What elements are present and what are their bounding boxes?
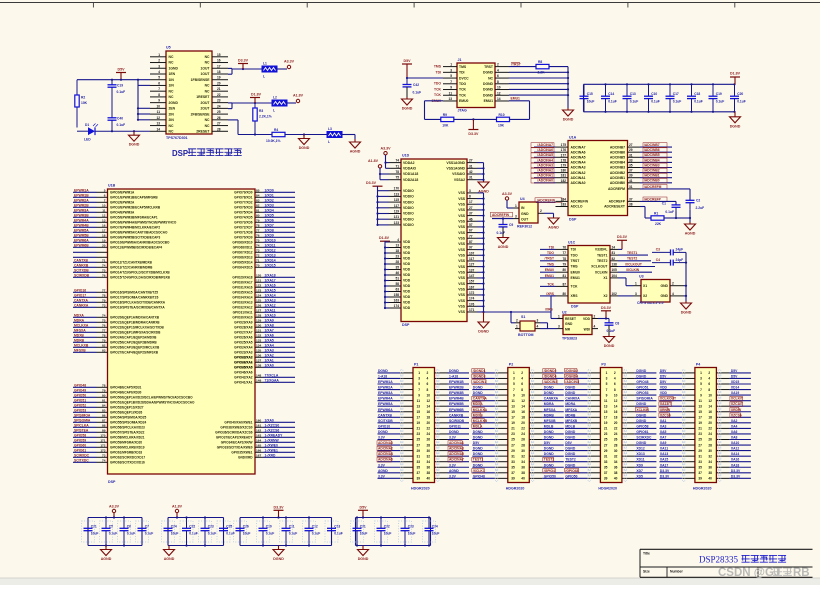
svg-text:IN: IN: [521, 206, 525, 210]
svg-text:1/XA2: 1/XA2: [265, 353, 274, 357]
svg-text:161: 161: [256, 423, 261, 427]
node P4 row 6: [659, 396, 751, 404]
svg-text:C22: C22: [189, 524, 195, 528]
svg-text:1/XD10: 1/XD10: [265, 238, 276, 242]
power D3.3V pullup: [468, 119, 479, 135]
svg-text:/XCLKIN: /XCLKIN: [626, 268, 640, 272]
svg-text:38: 38: [708, 471, 712, 475]
svg-text:/ADCINB5: /ADCINB5: [644, 153, 660, 157]
node ADCREFIN wire to U1A: [535, 198, 562, 203]
svg-text:EPWM2A: EPWM2A: [378, 386, 393, 390]
svg-text:39: 39: [629, 174, 633, 178]
svg-text:ADCINA4: ADCINA4: [378, 452, 393, 456]
resistor R1: [651, 211, 664, 226]
svg-text:ADCRESEXT: ADCRESEXT: [604, 205, 626, 209]
node P4 row 4: [659, 386, 751, 393]
node 1/XA7: [234, 328, 295, 334]
svg-text:29: 29: [698, 449, 702, 453]
svg-text:1/XD9: 1/XD9: [265, 233, 274, 237]
node 1/XA3: [234, 348, 295, 354]
node P2 row 3: [472, 380, 564, 387]
svg-text:1: 1: [558, 314, 560, 318]
LED D1: [84, 123, 98, 142]
svg-text:/ADCINB0: /ADCINB0: [644, 179, 660, 183]
svg-text:16: 16: [614, 410, 618, 414]
svg-text:DGND: DGND: [565, 463, 575, 467]
svg-text:XA12: XA12: [731, 447, 740, 451]
svg-text:VSS1AGND: VSS1AGND: [446, 161, 465, 165]
svg-text:0.1uF: 0.1uF: [630, 100, 639, 104]
svg-text:XD15: XD15: [731, 380, 740, 384]
ground DGND: [273, 546, 284, 562]
svg-text:GPIO22/EQEP1S/MCLKXA/SCITXDB: GPIO22/EQEP1S/MCLKXA/SCITXDB: [110, 326, 164, 330]
svg-text:1/XA7: 1/XA7: [265, 328, 274, 332]
wire A3.3V cap bank rails: [88, 518, 142, 546]
svg-text:120: 120: [256, 273, 261, 277]
svg-text:/ADCINA5: /ADCINA5: [537, 153, 553, 157]
svg-text:3: 3: [515, 214, 517, 218]
svg-text:/ADCINA4: /ADCINA4: [537, 158, 553, 162]
svg-text:DSP: DSP: [402, 323, 410, 327]
svg-text:L1: L1: [263, 61, 267, 65]
svg-text:75: 75: [256, 238, 260, 242]
svg-text:XD7: XD7: [636, 469, 643, 473]
svg-text:30: 30: [614, 449, 618, 453]
svg-text:10: 10: [497, 86, 501, 90]
node P1 row 16: [377, 452, 469, 460]
svg-text:DGND: DGND: [544, 463, 554, 467]
node EPWM3B pin 12: [73, 213, 158, 219]
node P3 row 8: [565, 407, 657, 414]
svg-text:DGND: DGND: [473, 391, 483, 395]
node 1-/XREADY: [216, 433, 295, 439]
svg-text:82: 82: [102, 343, 106, 347]
svg-text:ADCINA4: ADCINA4: [571, 161, 586, 165]
svg-text:TDO: TDO: [459, 82, 467, 86]
svg-text:23: 23: [511, 432, 515, 436]
ground DGND: [402, 97, 413, 111]
svg-text:37: 37: [511, 471, 515, 475]
svg-text:XA10: XA10: [731, 441, 740, 445]
power D3.3V VDDIO bus: [366, 181, 383, 186]
node P1 row 10: [378, 419, 470, 426]
svg-text:MDRA: MDRA: [544, 402, 555, 406]
svg-text:GPIO10/EPWM6A/CANRXB/ADCSOCBO: GPIO10/EPWM6A/CANRXB/ADCSOCBO: [110, 241, 170, 245]
node EPWM5B pin 18: [73, 233, 161, 239]
node ADCINB0: [640, 178, 672, 183]
node ADCINB5: [640, 153, 672, 158]
svg-text:13: 13: [102, 218, 106, 222]
svg-text:1/XA10: 1/XA10: [265, 313, 276, 317]
wire R10 to EMU1: [510, 118, 530, 120]
capacitor C42: [403, 83, 422, 95]
svg-text:29: 29: [629, 148, 633, 152]
svg-text:33: 33: [416, 460, 420, 464]
ground DGND: [730, 112, 741, 129]
svg-text:1-/XWE0: 1-/XWE0: [265, 443, 279, 447]
svg-text:EPWM1B: EPWM1B: [449, 380, 464, 384]
svg-text:TDI: TDI: [571, 248, 577, 252]
svg-text:ADCINA0: ADCINA0: [571, 181, 586, 185]
svg-text:1: 1: [516, 324, 518, 328]
node 1-/XWE1: [231, 448, 295, 454]
svg-text:1GND: 1GND: [169, 66, 179, 70]
svg-text:2/XA18: 2/XA18: [265, 273, 276, 277]
node ADCREFP: [640, 197, 676, 205]
svg-text:DGND: DGND: [358, 557, 369, 561]
svg-text:85: 85: [102, 408, 106, 412]
svg-text:GPIO19/SPISTEA/SCIRXDB/CANTXA: GPIO19/SPISTEA/SCIRXDB/CANTXA: [110, 306, 165, 310]
svg-text:2: 2: [158, 59, 160, 63]
svg-text:VSSA2: VSSA2: [454, 178, 465, 182]
svg-text:1EN: 1EN: [169, 72, 176, 76]
svg-text:ADCINA7: ADCINA7: [449, 458, 464, 462]
wire 2OUT to L2: [228, 102, 272, 109]
svg-text:C3: C3: [656, 248, 660, 252]
svg-text:TDO: TDO: [571, 253, 579, 257]
svg-text:VDD: VDD: [403, 257, 411, 261]
svg-text:XCLK/T: XCLK/T: [731, 397, 743, 401]
svg-text:78: 78: [102, 333, 106, 337]
svg-text:HDGR2020: HDGR2020: [598, 487, 617, 491]
svg-text:SCITXDC: SCITXDC: [74, 458, 89, 462]
capacitor C18: [687, 83, 703, 113]
svg-text:GPIO6/EPWM4A/EPWMSYNCI/EPWMSYN: GPIO6/EPWM4A/EPWMSYNCI/EPWMSYNCO: [110, 221, 177, 225]
svg-text:/ADCINB4: /ADCINB4: [644, 158, 660, 162]
capacitor C13: [325, 518, 343, 546]
wire R4 to L3: [285, 133, 327, 135]
svg-text:2EN: 2EN: [169, 107, 176, 111]
svg-text:9: 9: [700, 393, 702, 397]
svg-text:GPIO7/EPWM4B/MCLKRA/ECAP2: GPIO7/EPWM4B/MCLKRA/ECAP2: [110, 226, 160, 230]
svg-text:29: 29: [511, 449, 515, 453]
svg-text:GPIO69/XD10: GPIO69/XD10: [232, 241, 252, 245]
node ADCINB7: [640, 143, 672, 148]
svg-text:17: 17: [698, 416, 702, 420]
svg-text:76: 76: [102, 323, 106, 327]
svg-text:ADCINA2: ADCINA2: [378, 447, 393, 451]
svg-text:2: 2: [427, 371, 429, 375]
svg-text:XA3: XA3: [660, 424, 667, 428]
svg-text:/XCLK1: /XCLK1: [473, 469, 485, 473]
svg-text:/ADCINB7: /ADCINB7: [644, 143, 660, 147]
watermark CSDN: [718, 567, 810, 579]
svg-text:81: 81: [102, 398, 106, 402]
svg-text:NC: NC: [169, 89, 174, 93]
svg-text:AGND: AGND: [498, 245, 509, 249]
node P2 row 20: [472, 474, 564, 481]
svg-text:SCIRXDB: SCIRXDB: [449, 419, 465, 423]
power A1.8V bank: [172, 504, 183, 518]
node P4 row 10: [659, 419, 751, 426]
capacitor C24: [162, 518, 179, 546]
svg-text:25: 25: [217, 110, 221, 114]
node P3 row 12: [565, 430, 657, 437]
svg-text:80: 80: [562, 292, 566, 296]
node ADCREFM: [640, 185, 690, 201]
svg-text:3: 3: [513, 377, 515, 381]
svg-text:GPIO16/SPISIMOA/CANTXB/TZ5: GPIO16/SPISIMOA/CANTXB/TZ5: [110, 291, 158, 295]
svg-text:GPIO23/XA3: GPIO23/XA3: [234, 351, 253, 355]
svg-text:C25: C25: [226, 524, 232, 528]
node P2 row 9: [472, 413, 564, 421]
node P3 row 16: [565, 452, 657, 459]
node 77/XCLA: [234, 373, 295, 379]
svg-text:GPIO53/EQEP1I/XD26: GPIO53/EQEP1I/XD26: [110, 411, 143, 415]
wire A1.8V cap bank rails: [168, 518, 224, 546]
svg-text:4: 4: [158, 70, 160, 74]
svg-text:33: 33: [698, 460, 702, 464]
svg-text:125: 125: [256, 298, 261, 302]
svg-text:80: 80: [562, 268, 566, 272]
svg-text:1/XA16: 1/XA16: [265, 283, 276, 287]
svg-text:/ADCREFIN: /ADCREFIN: [537, 199, 556, 203]
wire A3.3V to VDDA pins: [384, 155, 389, 168]
svg-text:GPIO51: GPIO51: [74, 398, 86, 402]
svg-text:EPWM5B: EPWM5B: [74, 233, 89, 237]
svg-text:VSS: VSS: [458, 202, 466, 206]
svg-text:D5V: D5V: [660, 374, 667, 378]
svg-text:MDLA: MDLA: [473, 424, 483, 428]
svg-text:1: 1: [635, 282, 637, 286]
svg-text:7: 7: [418, 388, 420, 392]
svg-text:MDRB: MDRB: [565, 413, 576, 417]
wire crystal gnd bus: [684, 252, 687, 301]
svg-text:1/XA13: 1/XA13: [265, 298, 276, 302]
capacitor C10: [644, 83, 660, 113]
svg-text:78: 78: [562, 257, 566, 261]
svg-text:GPIO48: GPIO48: [74, 383, 86, 387]
svg-text:/DGND3: /DGND3: [473, 374, 486, 378]
svg-text:TEST1: TEST1: [473, 458, 484, 462]
transistor S1 reset button: [515, 315, 540, 337]
svg-text:SPISIMOA: SPISIMOA: [74, 413, 91, 417]
svg-text:GPIO2/EPWM2A: GPIO2/EPWM2A: [110, 201, 135, 205]
node MDXA pin 74: [73, 313, 160, 319]
svg-text:12: 12: [427, 399, 431, 403]
svg-text:DGND: DGND: [483, 71, 494, 75]
svg-text:167: 167: [469, 285, 475, 289]
svg-text:MDLB: MDLB: [565, 424, 575, 428]
svg-text:84: 84: [256, 193, 260, 197]
svg-text:3.3V: 3.3V: [449, 463, 457, 467]
svg-text:40: 40: [614, 477, 618, 481]
svg-text:79: 79: [102, 388, 106, 392]
svg-text:TEST2: TEST2: [544, 458, 555, 462]
svg-text:79: 79: [562, 263, 566, 267]
svg-text:97: 97: [469, 246, 473, 250]
svg-text:GPIO26/XA6: GPIO26/XA6: [234, 336, 253, 340]
svg-text:R9: R9: [443, 113, 447, 117]
op-amp U4 REF3012 voltage reference: [513, 197, 544, 229]
svg-text:24: 24: [427, 432, 431, 436]
svg-text:A3.3V: A3.3V: [502, 192, 513, 196]
node TDO U1C: [540, 251, 556, 255]
resistor R4: [266, 128, 285, 143]
svg-text:GPIO49: GPIO49: [74, 388, 86, 392]
svg-text:6: 6: [158, 81, 160, 85]
svg-text:19: 19: [102, 238, 106, 242]
svg-text:1OUT: 1OUT: [200, 66, 210, 70]
svg-text:EPWM5B: EPWM5B: [449, 402, 464, 406]
svg-text:1/XD8: 1/XD8: [265, 228, 274, 232]
title block: [640, 549, 813, 577]
svg-text:EMU0: EMU0: [571, 270, 581, 274]
svg-text:32: 32: [427, 454, 431, 458]
svg-text:NC: NC: [205, 89, 210, 93]
svg-text:35: 35: [629, 164, 633, 168]
svg-text:/ADCREFM: /ADCREFM: [644, 185, 662, 189]
svg-text:MFSXB: MFSXB: [565, 419, 577, 423]
svg-text:EPWM4B: EPWM4B: [449, 397, 464, 401]
node CANRXA pin 73: [73, 303, 165, 309]
svg-text:TDO: TDO: [547, 251, 554, 255]
node EPWM4A pin 13: [73, 218, 177, 224]
svg-text:2OUT: 2OUT: [200, 107, 210, 111]
capacitor C19: [709, 83, 725, 113]
node ADCINB1: [640, 173, 672, 178]
svg-text:77/XCLA: 77/XCLA: [265, 373, 279, 377]
node P4 row 19: [659, 469, 751, 476]
svg-text:GPIO26/ECAP3/EQEP2I/MCLKXB: GPIO26/ECAP3/EQEP2I/MCLKXB: [110, 346, 160, 350]
svg-text:C42: C42: [413, 83, 419, 87]
capacitor C6: [118, 516, 136, 546]
svg-text:/TRST: /TRST: [544, 257, 554, 261]
node P2 row 10: [472, 419, 564, 427]
svg-text:ADCINA6: ADCINA6: [571, 150, 586, 154]
svg-text:D5V: D5V: [473, 441, 480, 445]
svg-text:U3: U3: [639, 275, 644, 279]
svg-text:121: 121: [256, 278, 261, 282]
node P4 row 18: [659, 463, 751, 470]
svg-text:88: 88: [102, 423, 106, 427]
svg-text:GPIO61: GPIO61: [636, 430, 648, 434]
svg-text:MDXA: MDXA: [473, 402, 483, 406]
svg-text:/DGND2: /DGND2: [544, 369, 557, 373]
node P4 row 13: [659, 436, 751, 443]
node GPIO52 pin 84: [73, 403, 144, 409]
svg-text:1/XD12: 1/XD12: [265, 248, 276, 252]
svg-text:GPIO37/ECAP2/XREADY: GPIO37/ECAP2/XREADY: [216, 436, 254, 440]
svg-text:GPIO34/XA14: GPIO34/XA14: [232, 296, 252, 300]
svg-text:5: 5: [450, 74, 452, 78]
svg-text:0.1uF: 0.1uF: [145, 532, 154, 536]
node 1/XD12: [232, 248, 295, 254]
svg-text:1/XA11: 1/XA11: [265, 308, 276, 312]
svg-text:A3.3V: A3.3V: [109, 504, 120, 508]
connector P3 header 2x20: [587, 362, 635, 490]
svg-text:39: 39: [698, 477, 702, 481]
svg-text:2: 2: [672, 282, 674, 286]
svg-text:17: 17: [102, 228, 106, 232]
svg-text:22: 22: [614, 427, 618, 431]
wire VDD bus: [384, 241, 389, 309]
svg-text:GPIO32/XA12: GPIO32/XA12: [232, 306, 252, 310]
svg-text:1/XA12: 1/XA12: [265, 303, 276, 307]
svg-text:0.1uF: 0.1uF: [413, 91, 422, 95]
svg-text:D1.8V: D1.8V: [379, 236, 390, 240]
svg-text:0.1uF: 0.1uF: [334, 532, 343, 536]
svg-text:1: 1: [515, 204, 517, 208]
node GPIO17 pin 78: [73, 293, 159, 299]
svg-text:9: 9: [513, 393, 515, 397]
svg-text:1/XD11: 1/XD11: [265, 243, 276, 247]
svg-text:0.1uF: 0.1uF: [117, 123, 126, 127]
svg-text:0.1uF: 0.1uF: [289, 532, 298, 536]
capacitor C23: [199, 516, 217, 546]
svg-text:126: 126: [256, 303, 261, 307]
svg-text:GPIO48: GPIO48: [473, 474, 485, 478]
node SCIRXDB pin 76: [73, 273, 171, 279]
svg-text:SCITXDB: SCITXDB: [378, 419, 393, 423]
svg-text:11: 11: [102, 208, 106, 212]
svg-text:GND: GND: [660, 284, 668, 288]
svg-text:1IN: 1IN: [169, 78, 175, 82]
svg-text:78: 78: [256, 223, 260, 227]
svg-text:J1: J1: [458, 58, 462, 62]
svg-text:DGND: DGND: [273, 557, 284, 561]
node GPIO48 pin 78: [73, 383, 142, 389]
node EMU1 U1C: [540, 274, 556, 278]
ground AGND: [101, 546, 112, 562]
svg-text:39: 39: [511, 477, 515, 481]
svg-text:DGND: DGND: [544, 391, 554, 395]
svg-text:MFSXA: MFSXA: [544, 408, 556, 412]
svg-text:GPIO61: GPIO61: [74, 448, 86, 452]
node 1/XD8: [234, 228, 295, 234]
svg-text:TCK: TCK: [459, 93, 467, 97]
svg-text:XD5: XD5: [636, 474, 643, 478]
svg-text:135: 135: [256, 348, 261, 352]
svg-text:32: 32: [708, 454, 712, 458]
connector J1 JTAG header: [443, 58, 509, 113]
svg-text:16: 16: [217, 59, 221, 63]
svg-text:X1: X1: [643, 284, 647, 288]
label schematic title DSP28335: [699, 555, 786, 565]
svg-text:NC: NC: [169, 55, 174, 59]
svg-text:27: 27: [469, 159, 473, 163]
svg-text:40: 40: [427, 477, 431, 481]
svg-text:17: 17: [217, 64, 221, 68]
svg-text:12: 12: [156, 116, 160, 120]
svg-text:8: 8: [708, 388, 710, 392]
svg-text:C19: C19: [117, 83, 123, 87]
node GPIO51 pin 81: [73, 398, 195, 404]
svg-text:79: 79: [102, 298, 106, 302]
svg-text:GPIO29/XA9: GPIO29/XA9: [234, 321, 253, 325]
svg-text:DGND: DGND: [636, 369, 646, 373]
svg-text:37: 37: [604, 471, 608, 475]
node MDRA pin 75: [73, 318, 160, 324]
svg-text:DGND: DGND: [604, 344, 615, 348]
wire L2 to A1.8V: [287, 102, 296, 104]
node P1 row 14: [377, 441, 469, 449]
svg-text:DGND: DGND: [473, 436, 483, 440]
svg-text:C2: C2: [696, 199, 700, 203]
svg-text:EPWM5A: EPWM5A: [378, 402, 393, 406]
svg-text:DGND: DGND: [636, 374, 646, 378]
node P4 row 11: [659, 424, 751, 431]
svg-text:184: 184: [561, 197, 567, 201]
svg-text:XA11: XA11: [660, 447, 668, 451]
svg-text:3: 3: [469, 189, 471, 193]
svg-text:NC: NC: [205, 55, 210, 59]
svg-text:VSS: VSS: [458, 248, 466, 252]
svg-text:105: 105: [612, 268, 618, 272]
svg-text:MDRB: MDRB: [74, 338, 85, 342]
node P3 row 1: [564, 369, 656, 377]
svg-text:VDDIO: VDDIO: [403, 195, 414, 199]
